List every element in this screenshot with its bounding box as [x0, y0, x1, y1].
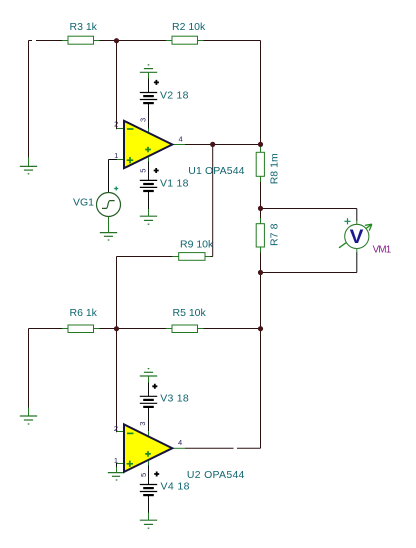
svg-text:2: 2: [114, 120, 118, 129]
svg-text:5: 5: [139, 473, 148, 477]
svg-text:5: 5: [139, 169, 148, 173]
svg-text:3: 3: [138, 118, 147, 122]
svg-text:V: V: [350, 226, 364, 248]
svg-text:R6 1k: R6 1k: [70, 307, 98, 319]
svg-text:V3 18: V3 18: [160, 393, 189, 405]
svg-text:R3 1k: R3 1k: [70, 21, 98, 33]
svg-text:VG1: VG1: [73, 197, 94, 209]
svg-text:R9 10k: R9 10k: [180, 238, 214, 250]
svg-text:2: 2: [114, 424, 118, 433]
svg-text:V1 18: V1 18: [160, 178, 189, 190]
svg-text:R7 8: R7 8: [268, 223, 280, 246]
svg-text:1: 1: [114, 151, 118, 160]
svg-text:1: 1: [114, 456, 118, 465]
svg-text:R8 1m: R8 1m: [268, 153, 280, 184]
svg-text:VM1: VM1: [373, 244, 392, 255]
svg-text:V2 18: V2 18: [160, 90, 189, 102]
svg-text:U2 OPA544: U2 OPA544: [187, 469, 245, 481]
svg-text:R2 10k: R2 10k: [172, 21, 206, 33]
svg-text:4: 4: [178, 438, 182, 447]
svg-text:U1 OPA544: U1 OPA544: [188, 165, 244, 177]
svg-text:3: 3: [138, 422, 147, 426]
svg-text:R5 10k: R5 10k: [173, 307, 207, 319]
svg-text:V4 18: V4 18: [161, 481, 190, 493]
svg-text:4: 4: [179, 135, 183, 144]
